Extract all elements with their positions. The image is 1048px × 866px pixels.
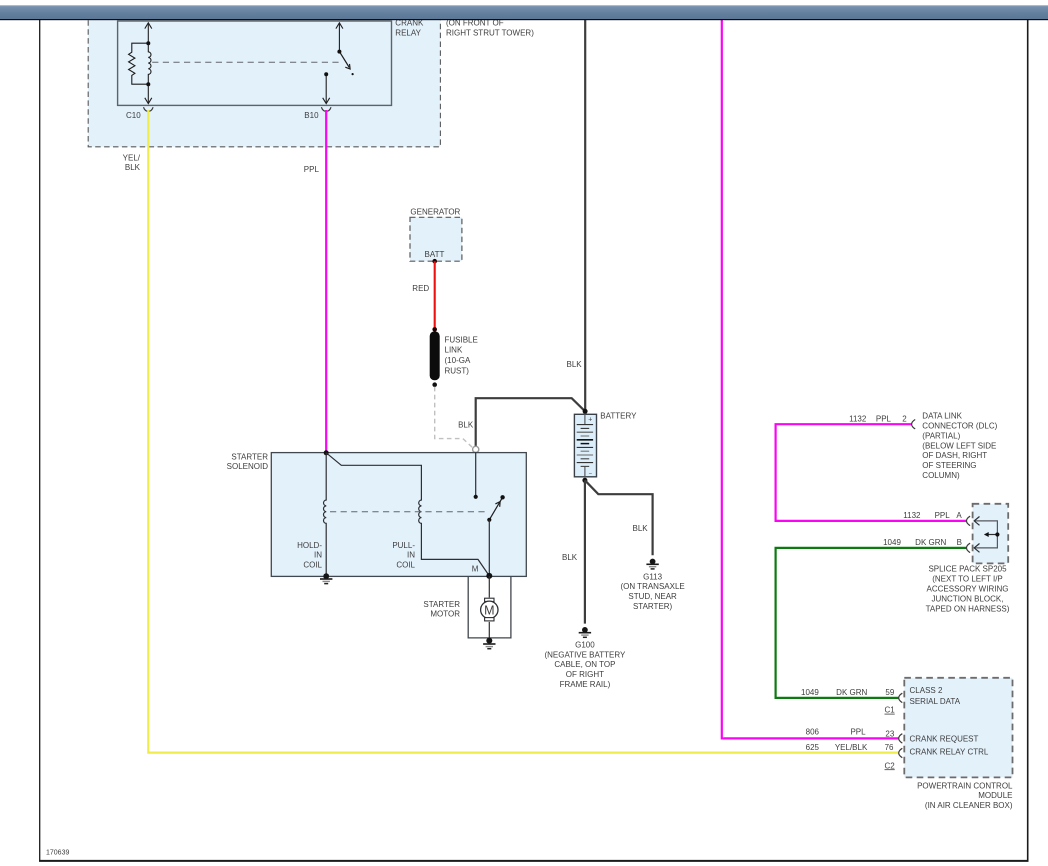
solenoid input node dot: [324, 450, 329, 455]
svg-text:STARTER: STARTER: [231, 453, 268, 462]
svg-text:+: +: [588, 416, 592, 423]
svg-text:CLASS 2: CLASS 2: [910, 686, 943, 695]
svg-text:(ON TRANSAXLE: (ON TRANSAXLE: [620, 582, 684, 591]
wire magenta main vertical to PCM 23: [722, 20, 899, 738]
wire magenta PPL from B10 to starter solenoid: [325, 110, 327, 453]
relay switch contact wire with down arrow: [323, 74, 330, 103]
diagram frame bottom border: [39, 860, 1029, 862]
svg-text:MODULE: MODULE: [978, 791, 1012, 800]
svg-text:ACCESSORY WIRING: ACCESSORY WIRING: [927, 585, 1009, 594]
svg-text:POWERTRAIN CONTROL: POWERTRAIN CONTROL: [917, 781, 1013, 790]
ground under starter motor: [483, 638, 495, 649]
svg-text:1049: 1049: [801, 688, 819, 697]
crank relay coil (inductor): [148, 43, 151, 84]
svg-text:SPLICE PACK SP205: SPLICE PACK SP205: [928, 565, 1007, 574]
wire dark green splice B to PCM 59: [776, 548, 967, 698]
svg-text:OF DASH, RIGHT: OF DASH, RIGHT: [922, 451, 987, 460]
connector at splice row A: [967, 516, 971, 525]
relay switch common wire with up arrow: [336, 23, 343, 52]
connector at DLC: [912, 420, 916, 429]
label G113 (ON TRANSAXLE STUD, NEAR STARTER): [620, 572, 684, 611]
svg-text:DK GRN: DK GRN: [915, 538, 946, 547]
PCM pin function labels: [910, 686, 989, 756]
svg-text:CABLE, ON TOP: CABLE, ON TOP: [554, 660, 615, 669]
fusible link top dot: [432, 327, 437, 332]
ground under hold-in coil: [320, 573, 332, 583]
crank relay coil wire with arrows: [145, 23, 152, 104]
svg-text:PPL: PPL: [850, 727, 866, 736]
solenoid contact wire from junction circle: [475, 453, 477, 497]
label 1132 PPL 2 (DLC row): [849, 415, 907, 424]
svg-text:23: 23: [885, 730, 894, 739]
label 1132 PPL A (splice row A): [903, 511, 962, 520]
svg-text:C10: C10: [126, 111, 141, 120]
connector at PCM 59: [899, 693, 903, 702]
wire M terminal to motor: [488, 576, 490, 598]
svg-text:COLUMN): COLUMN): [922, 471, 960, 480]
crank relay inner box: [118, 21, 392, 105]
splice pack dashed box: [973, 504, 1009, 564]
svg-text:JUNCTION BLOCK,: JUNCTION BLOCK,: [931, 594, 1003, 603]
wire magenta DLC branch: [776, 424, 967, 521]
svg-text:B10: B10: [304, 111, 319, 120]
svg-text:RED: RED: [412, 284, 429, 293]
svg-text:BLK: BLK: [125, 163, 141, 172]
svg-text:COIL: COIL: [303, 560, 322, 569]
M terminal dot: [486, 573, 492, 579]
svg-text:C2: C2: [885, 761, 896, 770]
svg-text:806: 806: [806, 727, 820, 736]
crank relay outer dashed box: [88, 11, 440, 147]
relay mechanical dashed link: [152, 61, 343, 63]
svg-text:−: −: [589, 472, 593, 478]
svg-text:YEL/BLK: YEL/BLK: [835, 743, 868, 752]
svg-text:PULL-: PULL-: [392, 541, 415, 550]
svg-text:HOLD-: HOLD-: [297, 541, 322, 550]
svg-text:G113: G113: [643, 572, 663, 581]
starter motor enclosure: [468, 577, 511, 638]
svg-text:DATA LINK: DATA LINK: [922, 412, 962, 421]
svg-text:TAPED ON HARNESS): TAPED ON HARNESS): [926, 604, 1010, 613]
dashed unfused wire from fusible link to splice: [435, 387, 473, 448]
svg-text:BLK: BLK: [567, 360, 583, 369]
svg-text:1132: 1132: [903, 511, 921, 520]
connector C10 symbol: [144, 107, 154, 111]
svg-text:M: M: [472, 564, 479, 573]
battery top node dot: [583, 409, 588, 414]
battery plates: [577, 425, 593, 467]
svg-text:CRANK REQUEST: CRANK REQUEST: [910, 734, 979, 743]
svg-text:RIGHT STRUT TOWER): RIGHT STRUT TOWER): [446, 28, 534, 37]
wire motor to ground: [488, 622, 490, 638]
svg-text:CRANK RELAY CTRL: CRANK RELAY CTRL: [910, 748, 989, 757]
svg-text:A: A: [956, 511, 962, 520]
svg-text:SERIAL DATA: SERIAL DATA: [910, 697, 961, 706]
junction open circle: [473, 446, 479, 452]
connector at PCM 23: [899, 734, 903, 743]
generator BATT terminal dot: [432, 259, 437, 264]
battery case: [574, 414, 596, 477]
label 1049 DK GRN B (splice row B): [883, 538, 962, 547]
label 806 PPL 23 (PCM row): [806, 727, 895, 738]
starter motor symbol: [485, 598, 494, 601]
PCM dashed box: [904, 678, 1012, 778]
svg-text:B: B: [957, 538, 962, 547]
splice pack internal bus: [974, 517, 997, 553]
svg-text:1049: 1049: [883, 538, 901, 547]
solenoid mechanical dashed link: [330, 511, 487, 513]
svg-text:(NEGATIVE BATTERY: (NEGATIVE BATTERY: [544, 650, 626, 659]
wire black battery to G100: [584, 480, 586, 623]
svg-text:RUST): RUST): [445, 366, 470, 375]
label PULL-IN COIL: [392, 541, 415, 569]
svg-text:BATTERY: BATTERY: [600, 411, 637, 420]
crank relay parallel resistor: [129, 43, 149, 84]
svg-text:76: 76: [885, 743, 894, 752]
svg-text:PPL: PPL: [876, 415, 892, 424]
svg-text:PPL: PPL: [935, 511, 951, 520]
svg-text:CONNECTOR (DLC): CONNECTOR (DLC): [922, 422, 997, 431]
splice pack bus dot: [995, 532, 999, 536]
starter solenoid box: [271, 453, 526, 577]
svg-text:G100: G100: [575, 640, 595, 649]
svg-text:MOTOR: MOTOR: [430, 610, 460, 619]
svg-text:DK GRN: DK GRN: [836, 688, 867, 697]
svg-text:BLK: BLK: [458, 420, 474, 429]
svg-text:M: M: [484, 603, 494, 617]
splice pack middle arrowhead: [984, 532, 989, 537]
label 625 YEL/BLK 76 (PCM row): [806, 743, 894, 752]
label G100 (NEGATIVE BATTERY CABLE, ON TOP OF RIGHT FRAME RAIL): [544, 640, 626, 689]
generator dashed box: [410, 217, 462, 261]
svg-text:(IN AIR CLEANER BOX): (IN AIR CLEANER BOX): [925, 801, 1013, 810]
svg-text:IN: IN: [407, 551, 415, 560]
svg-text:SOLENOID: SOLENOID: [227, 462, 269, 471]
svg-text:59: 59: [885, 688, 894, 697]
svg-text:GENERATOR: GENERATOR: [410, 208, 460, 217]
svg-text:(10-GA: (10-GA: [445, 356, 471, 365]
label POWERTRAIN CONTROL MODULE (IN AIR CLEANER BOX): [917, 781, 1013, 810]
label HOLD-IN COIL: [297, 541, 322, 569]
diagram frame right border: [1027, 20, 1029, 862]
svg-text:IN: IN: [314, 551, 322, 560]
svg-text:STARTER: STARTER: [423, 600, 460, 609]
label 1049 DK GRN 59 (PCM row): [801, 688, 895, 697]
label DATA LINK CONNECTOR (DLC) block: [922, 412, 997, 480]
svg-text:(PARTIAL): (PARTIAL): [922, 431, 960, 440]
wire black from junction circle up and over to battery: [476, 398, 585, 446]
relay coil node dots: [146, 41, 150, 45]
svg-text:STARTER): STARTER): [633, 602, 673, 611]
svg-text:PPL: PPL: [304, 165, 320, 174]
svg-text:RELAY: RELAY: [395, 28, 421, 37]
svg-text:625: 625: [806, 743, 820, 752]
svg-text:COIL: COIL: [396, 560, 415, 569]
battery internal stubs: [584, 414, 586, 424]
svg-text:BATT: BATT: [425, 250, 445, 259]
connector B10 symbol: [321, 107, 331, 111]
svg-text:170639: 170639: [46, 850, 69, 857]
hold-in coil wire: [324, 453, 327, 576]
ground G100: [579, 627, 591, 637]
battery bottom node dot: [582, 478, 587, 483]
header bar bottom edge: [0, 19, 1048, 20]
svg-text:BLK: BLK: [633, 524, 649, 533]
ground G113: [646, 559, 658, 569]
solenoid switch to M terminal wire: [488, 520, 490, 576]
wire black long vertical from top to battery: [584, 20, 586, 411]
svg-text:(NEXT TO LEFT I/P: (NEXT TO LEFT I/P: [932, 575, 1003, 584]
header bar: [0, 0, 1048, 5]
connector at splice row B: [967, 543, 971, 552]
svg-text:FUSIBLE: FUSIBLE: [445, 335, 478, 344]
svg-text:LINK: LINK: [445, 346, 463, 355]
svg-text:BLK: BLK: [562, 553, 578, 562]
wire black battery to G113: [585, 480, 653, 555]
diagram frame left border: [39, 20, 41, 862]
svg-text:YEL/: YEL/: [123, 153, 141, 162]
svg-text:(BELOW LEFT SIDE: (BELOW LEFT SIDE: [922, 441, 996, 450]
svg-text:FRAME RAIL): FRAME RAIL): [560, 680, 611, 689]
svg-text:OF STEERING: OF STEERING: [922, 461, 976, 470]
relay switch blade: [339, 52, 350, 69]
pull-in coil wire: [326, 453, 489, 576]
svg-text:STUD, NEAR: STUD, NEAR: [628, 592, 677, 601]
connector at PCM 76: [899, 748, 903, 757]
wire red from generator to fusible link: [434, 261, 436, 329]
fusible link body: [430, 331, 440, 380]
wire yellow YEL/BLK from C10 down and across to PCM 76: [148, 110, 898, 753]
label SPLICE PACK SP205 block: [926, 565, 1010, 614]
svg-text:C1: C1: [885, 706, 896, 715]
solenoid switch blade with arrow: [489, 498, 502, 520]
svg-text:OF RIGHT: OF RIGHT: [566, 670, 604, 679]
fusible link bottom dot: [432, 382, 437, 387]
svg-text:2: 2: [902, 415, 907, 424]
svg-text:1132: 1132: [849, 415, 867, 424]
